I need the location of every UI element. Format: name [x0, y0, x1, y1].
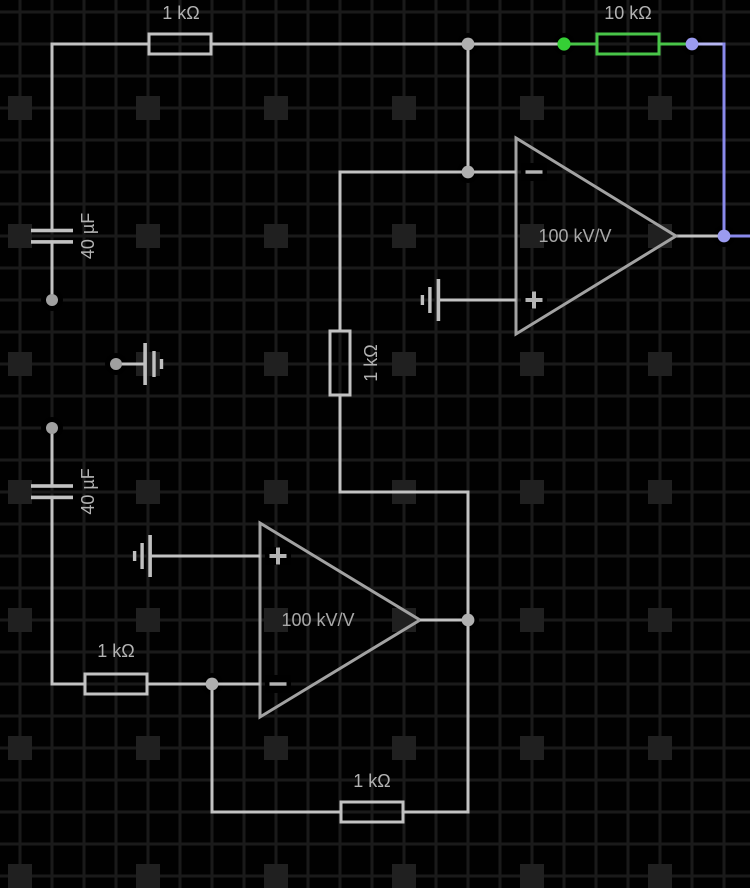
svg-text:40 µF: 40 µF [78, 213, 98, 259]
ground G1 [421, 279, 441, 321]
svg-text:1 kΩ: 1 kΩ [361, 344, 381, 381]
wire (purple) down right side [723, 43, 726, 237]
wire from R1 left down to C1 top [52, 44, 148, 230]
wire (selected net, light purple) [692, 43, 726, 46]
svg-text:1 kΩ: 1 kΩ [97, 641, 134, 661]
node A junction [462, 38, 475, 51]
node B junction [462, 166, 475, 179]
wire op-amp U1 output [676, 235, 724, 238]
wire node B left [340, 171, 468, 174]
ground G3 [133, 535, 152, 577]
resistor R3 (vertical) [330, 331, 381, 395]
wire node D to op-amp U2 - input [212, 683, 260, 686]
svg-text:100 kV/V: 100 kV/V [281, 610, 354, 630]
wire feedback column down to node C [467, 491, 470, 621]
op-amp U1 [516, 138, 676, 334]
wire C2 bottom to R4 [52, 499, 85, 684]
wire ground G2 stub [116, 363, 145, 366]
resistor R4 [85, 641, 147, 694]
wire C2 top lead [51, 428, 54, 485]
wire R4 right to node D [148, 683, 212, 686]
node D junction [206, 678, 219, 691]
node (green terminal) [557, 37, 570, 50]
wire (purple) to right edge [724, 235, 750, 238]
capacitor C2 [31, 468, 98, 514]
node C junction [462, 614, 475, 627]
wire node B to op-amp U1 - input [468, 171, 516, 174]
node (purple junction) [718, 230, 731, 243]
svg-text:1 kΩ: 1 kΩ [353, 771, 390, 791]
node halos (black discs under junction dots) [41, 33, 735, 695]
wire C1 bottom lead [51, 244, 54, 301]
wire node A to green terminal [468, 43, 564, 46]
ground G2 [143, 343, 163, 385]
wire op-amp U2 output to node C [420, 619, 468, 622]
wire R3 bottom to feedback column [340, 395, 468, 492]
wire down to R3 [339, 171, 342, 332]
resistor R2 (selected, green) [564, 3, 692, 54]
node G2 terminal [110, 358, 122, 370]
wire node D down to R5 [212, 684, 341, 812]
svg-text:1 kΩ: 1 kΩ [162, 3, 199, 23]
node C1 open terminal [46, 294, 58, 306]
svg-text:10 kΩ: 10 kΩ [604, 3, 651, 23]
wire op-amp U2 + input to ground [150, 555, 260, 558]
capacitor C1 [31, 213, 98, 259]
svg-text:40 µF: 40 µF [78, 468, 98, 514]
wire op-amp U1 + input to ground [438, 299, 516, 302]
resistor R1 [149, 3, 211, 54]
node (purple terminal) [686, 38, 699, 51]
wire node A down to node B [467, 44, 470, 172]
svg-text:100 kV/V: 100 kV/V [538, 226, 611, 246]
wire R5 right up to node C [404, 620, 468, 812]
wire R1 right to node A [212, 43, 468, 46]
op-amp U2 [260, 523, 420, 717]
node C2 open terminal [46, 422, 58, 434]
resistor R5 [341, 771, 403, 822]
